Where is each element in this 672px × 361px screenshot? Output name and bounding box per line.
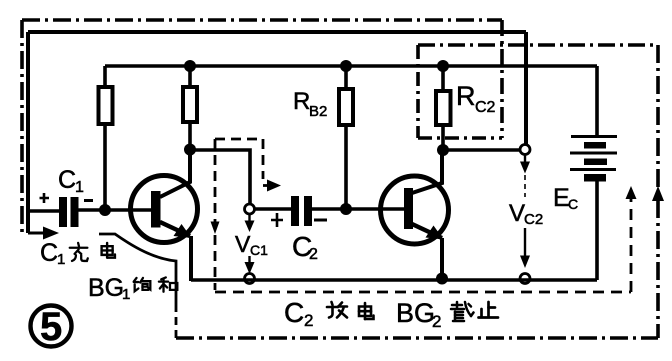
solid border right vertical to BG2 collector node <box>524 32 528 144</box>
solid border: top <box>28 30 526 34</box>
label C1 <box>58 81 578 263</box>
VC2 arrow bottom <box>524 228 526 257</box>
svg-text:C2: C2 <box>475 99 496 116</box>
wire collector to C2 node <box>190 150 250 205</box>
open node VC1 top <box>245 204 255 214</box>
bottom rail <box>191 278 597 282</box>
open node VC2 top (BG2 collector) <box>520 145 530 155</box>
node C1/R1/BG1 base <box>99 204 111 216</box>
svg-text:5: 5 <box>40 305 62 349</box>
resistor RC2 <box>441 66 445 91</box>
node BG2 emitter on rail <box>436 273 448 285</box>
label C2 discharge BG2 cutoff (C2放电 BG2截止) <box>284 297 498 331</box>
VC2 arrow top <box>524 155 526 162</box>
svg-text:1: 1 <box>75 179 84 196</box>
label BG1 saturated (BG1饱和) <box>88 274 177 303</box>
node R2 bottom / BG1 collector <box>184 144 196 156</box>
battery EC <box>571 135 617 138</box>
resistor R2 (collector resistor of BG1) <box>188 66 192 87</box>
svg-text:2: 2 <box>432 312 441 331</box>
junction dot rail/RB2 <box>340 60 352 72</box>
resistor R1 (base resistor of BG1) <box>103 66 107 88</box>
top rail <box>105 64 597 68</box>
svg-text:2: 2 <box>309 246 318 263</box>
VC1 arrow top <box>248 215 250 223</box>
C1 minus sign <box>84 199 93 202</box>
svg-text:C2: C2 <box>524 211 543 228</box>
dash-dot border: right vertical <box>656 45 660 338</box>
svg-text:B2: B2 <box>309 103 327 120</box>
dashed bottom rail <box>215 291 631 294</box>
wire RC2 node to VC2 open node <box>443 148 520 152</box>
node C2/RB2/BG2 base <box>340 203 352 215</box>
dash-dot arrow up on right vertical <box>652 186 664 201</box>
capacitor C1 <box>28 209 59 213</box>
svg-text:1: 1 <box>122 286 130 303</box>
dashed right vertical <box>630 198 633 292</box>
svg-text:V: V <box>235 231 251 257</box>
dash-dot border: right jog down (RC2 box right edge) <box>500 20 504 138</box>
arrow right on left border bottom <box>28 232 45 235</box>
RC2 dash-dot box bottom edge <box>418 136 502 140</box>
open node VC1 bottom <box>245 274 255 284</box>
solid border: left vertical <box>26 32 30 233</box>
junction dot rail/RC2 <box>437 60 449 72</box>
dashed vertical through BG1 area <box>214 139 217 290</box>
svg-text:C: C <box>58 166 76 194</box>
C2 plus sign <box>271 213 283 227</box>
svg-text:BG: BG <box>396 298 435 328</box>
svg-text:C1: C1 <box>250 242 268 258</box>
node RC2 bottom / BG2 collector <box>437 144 449 156</box>
svg-text:BG: BG <box>88 274 124 302</box>
capacitor C2 <box>255 207 292 211</box>
transistor BG2 <box>381 176 449 244</box>
dash-dot charge-path border: top <box>22 18 502 22</box>
junction dot rail/R2 <box>184 60 196 72</box>
svg-text:1: 1 <box>57 251 65 268</box>
svg-text:C: C <box>284 297 304 328</box>
svg-text:R: R <box>456 81 476 111</box>
RC2 dash-dot box left edge <box>416 45 420 138</box>
svg-text:C: C <box>568 196 578 212</box>
battery top drop <box>595 66 599 135</box>
svg-text:C: C <box>40 239 58 267</box>
svg-text:2: 2 <box>304 311 313 330</box>
dash-dot bottom-left riser (dashed part) <box>175 304 178 338</box>
VC1 arrow bottom <box>248 256 250 264</box>
svg-text:V: V <box>509 200 525 227</box>
battery bottom wire <box>595 181 599 280</box>
svg-text:R: R <box>293 88 310 115</box>
dashed discharge loop: hook near C2 <box>215 138 263 141</box>
dash-dot border: left vertical <box>20 20 24 235</box>
transistor BG1 <box>131 176 198 243</box>
open node VC2 bottom <box>520 274 530 284</box>
label C1 charging (C1充电) <box>40 239 115 268</box>
resistor RB2 <box>344 66 348 89</box>
curve from arrow to bottom riser <box>99 234 176 304</box>
C2 minus sign <box>314 219 327 222</box>
C1 plus sign <box>40 193 50 203</box>
dash-dot border: bottom <box>176 336 658 340</box>
dash-dot horizontal y=45 to right corner <box>418 43 658 47</box>
figure number 5 in circle <box>31 306 72 347</box>
